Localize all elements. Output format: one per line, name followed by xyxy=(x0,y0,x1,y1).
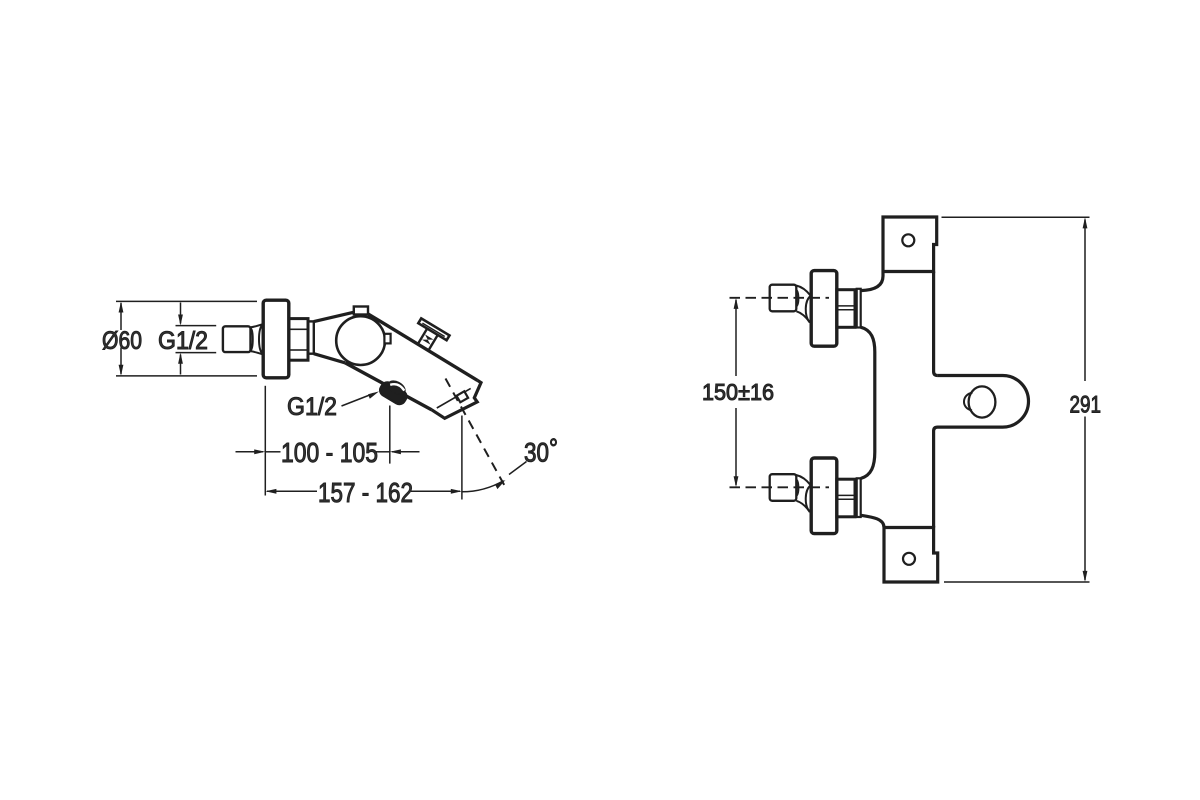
dim G1/2 arrow down xyxy=(180,303,182,324)
spout cap inner line xyxy=(437,388,471,408)
top handle centerline xyxy=(730,297,830,299)
top bracket xyxy=(883,217,937,272)
hand shower notch xyxy=(457,391,469,402)
thermostat handle notch xyxy=(384,334,390,344)
top bell upper line xyxy=(796,285,811,295)
top nut facet lines xyxy=(838,306,854,310)
dim G1/2 arrow up xyxy=(180,355,182,375)
body left edge mid xyxy=(861,327,875,478)
dim 157-162 line right xyxy=(411,490,460,492)
bottom bell lower line xyxy=(796,501,809,512)
30deg leader line xyxy=(509,462,527,475)
top bracket screw hole xyxy=(902,234,914,246)
funnel bottom flare xyxy=(251,351,263,354)
dim 100-105 right arrow xyxy=(392,451,420,453)
top handle knob xyxy=(770,285,797,312)
bottom handle centerline xyxy=(730,486,830,488)
top union nut xyxy=(837,290,855,328)
bottom neck strip xyxy=(857,478,861,517)
neck strip xyxy=(308,321,314,353)
spout outlet circle xyxy=(969,386,996,417)
dim 100-105 stub right xyxy=(376,451,390,453)
bottom bell upper line xyxy=(796,475,811,485)
outlet blob highlight xyxy=(390,384,404,390)
top bell mouth arc xyxy=(806,296,811,323)
svg-text:150±16: 150±16 xyxy=(702,379,774,405)
stop ring tab xyxy=(354,307,368,315)
bottom handle knob xyxy=(770,474,797,501)
funnel top flare xyxy=(251,324,263,327)
svg-text:Ø60: Ø60 xyxy=(102,327,142,355)
dim 291 extension bottom xyxy=(944,581,1090,583)
top knob dome arc xyxy=(797,290,799,306)
dim 150 line lower xyxy=(735,408,737,485)
dim Ø60 extension line bottom xyxy=(116,375,257,377)
bottom knob dome arc xyxy=(797,480,799,496)
diverter stem nut marks xyxy=(425,334,434,339)
inlet knob (side view) xyxy=(223,326,251,352)
diverter bar ridge line xyxy=(422,323,444,336)
bottom escutcheon plate xyxy=(811,458,837,534)
body right edge upper xyxy=(934,272,938,376)
funnel mouth arc xyxy=(259,324,263,354)
diverter stem right line xyxy=(428,335,437,351)
body left edge lower curve xyxy=(861,515,884,527)
top bell lower line xyxy=(796,311,809,322)
dim G1/2 extension line bottom xyxy=(176,352,217,354)
extension line spout tip xyxy=(461,416,463,500)
svg-text:G1/2: G1/2 xyxy=(287,393,337,421)
dim Ø60 arrow up xyxy=(120,303,122,330)
dim 150 line upper xyxy=(735,300,737,376)
body neck bottom edge xyxy=(314,354,345,363)
dim 291 extension top xyxy=(942,216,1090,218)
nut facet line bottom xyxy=(291,349,307,351)
dim 291 line upper xyxy=(1084,220,1086,382)
dim 157-162 line left xyxy=(267,490,317,492)
top neck strip xyxy=(857,289,861,328)
dim Ø60 arrow down xyxy=(120,348,122,375)
extension line plate left xyxy=(264,386,266,496)
union nut (side view) xyxy=(289,319,308,361)
hand shower outlet blob xyxy=(378,380,409,406)
nut facet line top xyxy=(291,328,307,330)
dim 100-105 stub left xyxy=(265,451,280,453)
body left edge upper curve xyxy=(861,272,883,291)
30deg arc xyxy=(462,481,504,492)
bottom union nut xyxy=(837,479,855,517)
body bottom edge xyxy=(345,363,432,410)
body top edge xyxy=(368,314,478,381)
knob dome arc xyxy=(251,328,253,350)
spout tip outline xyxy=(432,380,482,418)
top escutcheon plate xyxy=(811,271,837,347)
G1/2 leader line xyxy=(342,394,374,407)
svg-text:30°: 30° xyxy=(524,434,558,468)
dim Ø60 extension line top xyxy=(116,300,257,302)
extension line outlet center xyxy=(389,406,391,464)
dim G1/2 extension line top xyxy=(176,325,217,327)
svg-text:157 - 162: 157 - 162 xyxy=(318,477,413,508)
diverter knob profile arc xyxy=(964,393,973,411)
spout axis dashed line 30deg xyxy=(446,379,505,486)
thermostat handle circle xyxy=(336,316,385,365)
spout boss stadium xyxy=(934,376,1029,528)
body neck top edge xyxy=(314,312,354,321)
diverter stem left line xyxy=(418,329,427,345)
svg-text:G1/2: G1/2 xyxy=(158,327,208,355)
bottom nut facet lines xyxy=(838,495,854,499)
svg-text:291: 291 xyxy=(1070,392,1102,419)
svg-text:100 - 105: 100 - 105 xyxy=(281,437,378,468)
diverter crossbar xyxy=(418,318,449,340)
bottom bell mouth arc xyxy=(806,485,811,512)
bottom bracket xyxy=(884,528,938,583)
dim 100-105 left arrow xyxy=(236,451,264,453)
wall plate (side view) xyxy=(263,300,289,378)
dim 291 line lower xyxy=(1084,417,1086,581)
bottom bracket screw hole xyxy=(903,553,915,565)
